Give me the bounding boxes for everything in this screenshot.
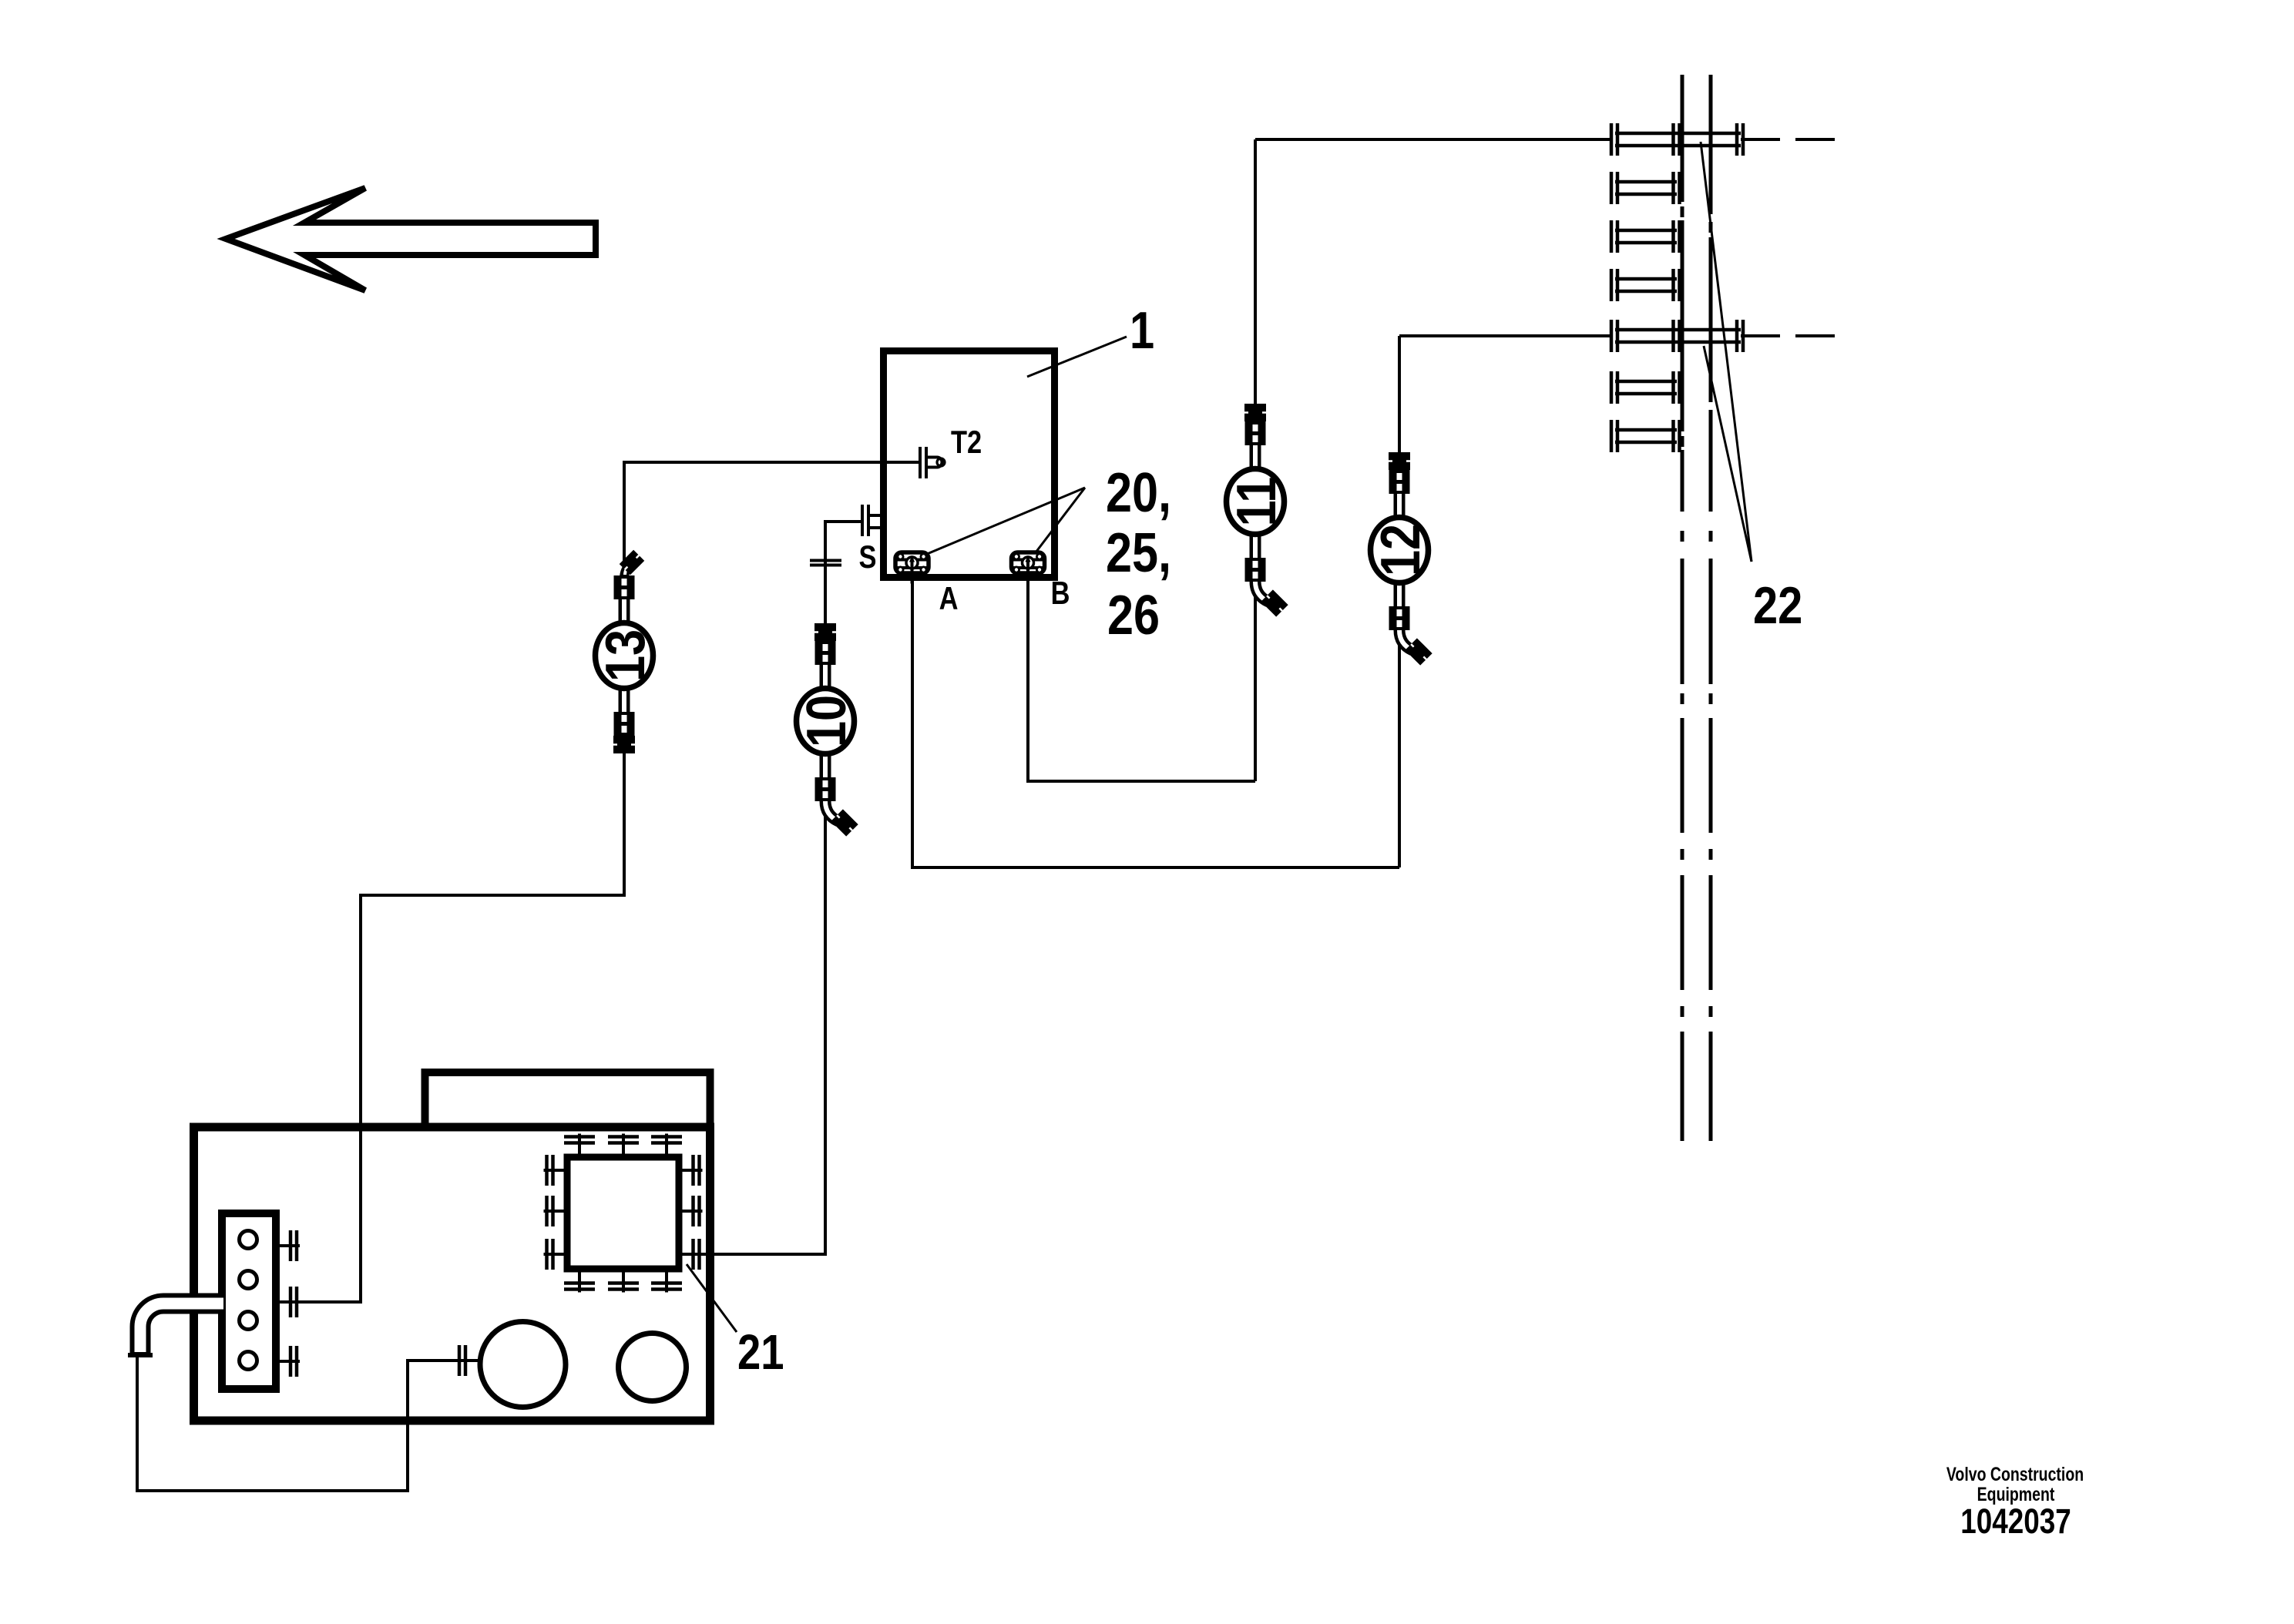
svg-text:1042037: 1042037	[1960, 1502, 2071, 1541]
svg-text:10: 10	[796, 695, 858, 747]
svg-text:12: 12	[1370, 524, 1432, 576]
svg-text:B: B	[1051, 575, 1070, 612]
svg-text:11: 11	[1226, 477, 1288, 527]
svg-text:20,: 20,	[1106, 462, 1171, 524]
svg-text:A: A	[939, 581, 959, 617]
svg-text:13: 13	[595, 629, 657, 682]
svg-text:22: 22	[1753, 577, 1802, 635]
svg-text:T2: T2	[951, 424, 982, 461]
svg-text:25,: 25,	[1106, 522, 1171, 584]
svg-text:21: 21	[737, 1324, 784, 1380]
svg-text:26: 26	[1107, 585, 1160, 646]
svg-text:Volvo Construction: Volvo Construction	[1946, 1464, 2084, 1485]
svg-text:1: 1	[1130, 302, 1154, 360]
svg-text:S: S	[859, 539, 877, 575]
